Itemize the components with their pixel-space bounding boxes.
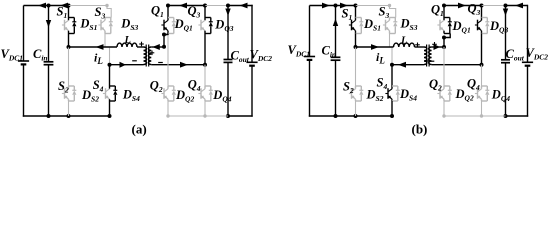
node Q4 bottom gray (b) <box>480 114 483 117</box>
wire top rail S1-S3 gray (a) <box>69 5 108 7</box>
svg-text:(b): (b) <box>412 122 428 137</box>
wire secondary bottom (a) <box>151 64 205 66</box>
wire S3 top jog gray (b) <box>390 6 396 18</box>
current arrow down into Cin (a) <box>46 20 51 28</box>
wire iL (b) <box>356 46 394 48</box>
wire bottom rail primary (b) <box>309 115 392 117</box>
node Cin bottom (a) <box>47 114 51 118</box>
transistor S2 (b) <box>349 86 356 101</box>
current arrow on top rail toward S1 (b) 1 <box>322 3 330 9</box>
label DQ2 (a) <box>175 88 194 104</box>
wire Q4 top lead gray (a) <box>204 65 206 86</box>
node secondary top corner (a) <box>162 45 166 49</box>
label DS4 (b) <box>399 87 417 103</box>
wire left rail VDC1 upper (a) <box>23 6 25 62</box>
wire bottom rail secondary gray (b) <box>444 115 506 117</box>
label Q4 (a) <box>188 78 201 94</box>
label DQ4 (a) <box>212 88 231 104</box>
label Cin (a) <box>33 47 48 63</box>
current arrow secondary bottom (a) <box>180 62 188 68</box>
label VDC2 (a) <box>250 48 273 64</box>
label DS2 (a) <box>81 88 99 104</box>
wire S2 bottom lead gray (a) <box>68 101 70 116</box>
current arrow on top rail toward VDC1 (a) <box>38 3 46 9</box>
label Cout (b) <box>506 47 525 63</box>
label DQ4 (b) <box>491 88 510 104</box>
node S1-S2 midpoint (a) <box>67 45 71 49</box>
node Q3 top (a) <box>203 4 207 8</box>
wire Q3 bottom lead (b) <box>481 34 483 65</box>
polarity plus secondary (b) <box>432 42 437 47</box>
current arrow up from Cin (b) <box>333 19 338 27</box>
current arrow top rail Q1-Q3 (a) <box>179 3 187 9</box>
wire S3 bottom lead gray (b) <box>389 34 391 48</box>
wire riser to Q1 (a) <box>164 34 168 36</box>
wire top rail Cout-VDC2 (a) <box>228 5 253 7</box>
node S2 bottom (a) <box>67 114 71 118</box>
wire Cin rail lower (a) <box>48 65 50 116</box>
label DQ1 (a) <box>174 17 193 33</box>
diode DQ2 (b) <box>444 86 452 101</box>
label iL (a) <box>94 51 103 67</box>
wire VDC2 rail upper (a) <box>251 5 253 63</box>
wire top rail Q3-Cout gray (a) <box>205 5 228 7</box>
node Cout top (b) <box>504 4 508 8</box>
label S1 (b) <box>342 7 353 23</box>
node secondary riser top (a) <box>162 33 166 37</box>
label S2 (a) <box>58 79 69 95</box>
node S4 link (a) <box>108 63 112 67</box>
wire secondary riser (a) <box>163 35 165 47</box>
wire secondary riser (b) <box>443 38 445 48</box>
wire Cin rail upper (a) <box>48 6 50 62</box>
wire left rail VDC1 lower (b) <box>309 60 311 117</box>
node secondary top corner (b) <box>442 45 446 49</box>
node Cin top (b) <box>334 4 338 8</box>
polarity minus secondary (a) <box>158 62 163 64</box>
wire S1 bottom lead (a) <box>68 34 70 48</box>
wire bottom rail output (b) <box>506 115 529 117</box>
wire left rail VDC1 upper (b) <box>309 6 311 57</box>
capacitor Cout (a) <box>224 60 233 63</box>
wire S2 top lead gray (b) <box>355 47 357 86</box>
inductor L (b) <box>394 43 415 47</box>
current arrow out of primary (b) <box>398 62 406 68</box>
current arrow into Cout (b) <box>503 9 508 17</box>
node S4 bottom (b) <box>390 114 394 118</box>
diode DQ1 (a) <box>168 18 176 34</box>
wire bottom rail output (a) <box>228 115 253 117</box>
current arrow iL pointing left (a) <box>96 44 104 50</box>
transistor S1 (b) <box>349 18 356 34</box>
wire S1 top lead (b) <box>355 6 357 18</box>
current arrow toward secondary plus (a) <box>152 44 160 50</box>
diode DQ4 (b) <box>482 86 490 101</box>
node Q1 top (b) <box>442 4 446 8</box>
wire S3 bottom lead gray (a) <box>104 34 106 48</box>
label DS1 (a) <box>79 17 97 33</box>
wire primary bottom (a) <box>110 64 144 66</box>
transistor S4 (a) <box>103 86 110 101</box>
node S1 top (a) <box>67 4 71 8</box>
wire Cout rail upper (b) <box>505 6 507 60</box>
diode DS1 (a) <box>69 18 77 34</box>
current arrow iL pointing right (b) <box>371 44 379 50</box>
label VDC2 (b) <box>526 46 549 62</box>
transformer core (a) <box>146 45 149 67</box>
label L (a) <box>124 35 131 46</box>
label Q4 (b) <box>467 77 480 93</box>
wire VDC2 rail upper (b) <box>527 5 529 63</box>
polarity minus primary (b) <box>424 60 429 62</box>
wire S1 top lead (a) <box>68 6 70 18</box>
wire Q3 top lead (b) <box>481 6 483 18</box>
diode DS4 (b) <box>392 86 400 101</box>
wire bottom rail secondary gray (a) <box>168 115 228 117</box>
wire Cout rail lower (b) <box>505 63 507 116</box>
transformer core (b) <box>427 45 430 67</box>
node Cin bottom (b) <box>334 114 338 118</box>
wire secondary top (b) <box>432 46 444 48</box>
current arrow top rail Q1-Q3 (b) <box>458 3 466 9</box>
label DS2 (b) <box>366 88 384 104</box>
current arrow on top rail from S1 node (a) <box>60 3 68 9</box>
wire Q4 bottom lead gray (a) <box>204 101 206 116</box>
label DQ2 (b) <box>455 87 474 103</box>
wire Cout rail upper (a) <box>227 6 229 60</box>
wire L to transformer (a) <box>137 46 144 48</box>
transformer primary winding (a) <box>144 47 147 65</box>
wire top rail S1-S3 gray (b) <box>356 5 390 7</box>
transistor Q1 (a) <box>161 18 168 34</box>
label L (b) <box>400 36 407 47</box>
diode DS2 (b) <box>356 86 364 101</box>
label S1 (a) <box>57 5 68 21</box>
node S4 bottom (a) <box>108 114 112 118</box>
polarity minus primary (a) <box>132 60 137 62</box>
current arrow into primary (a) <box>120 62 127 68</box>
wire primary bottom (b) <box>392 64 424 66</box>
wire top rail left segment (a) <box>24 5 69 7</box>
svg-text:L: L <box>400 36 407 47</box>
diode DS3 (b) <box>390 18 398 34</box>
transistor S4 (b) <box>385 86 392 101</box>
transistor Q2 (a) <box>161 86 168 101</box>
diode DQ4 (a) <box>205 86 213 101</box>
node S4 link (b) <box>390 63 394 67</box>
label Q2 (b) <box>429 77 442 93</box>
label S3 (a) <box>95 5 106 21</box>
label Q3 (b) <box>468 2 481 18</box>
battery VDC1 (b) <box>304 57 315 60</box>
label Cin (b) <box>322 44 337 60</box>
polarity plus primary (a) <box>139 42 144 47</box>
transistor Q4 (a) <box>198 86 205 101</box>
wire VDC2 rail lower (a) <box>251 66 253 117</box>
node Q2 bottom gray (b) <box>442 114 445 117</box>
transformer secondary winding (b) <box>429 47 432 65</box>
label Q2 (a) <box>150 79 163 95</box>
label S4 (b) <box>377 76 388 92</box>
transistor Q3 (a) <box>198 18 205 34</box>
transistor S2 (a) <box>62 86 69 101</box>
wire top rail Cout-VDC2 (b) <box>506 5 528 7</box>
wire Q4 bottom lead gray (b) <box>481 101 483 116</box>
wire S4 bottom lead (a) <box>109 101 111 116</box>
wire Q1-Q2 leg gray (b) <box>443 47 445 86</box>
node Q2 bottom gray (a) <box>166 114 169 117</box>
wire riser jog to DQ1 (b) <box>444 34 450 38</box>
label S2 (b) <box>343 80 354 96</box>
node Q1 top (a) <box>166 4 170 8</box>
diode DS1 (b) <box>356 18 364 34</box>
wire S4 bottom lead (b) <box>391 101 393 116</box>
wire S3 top jog gray (a) <box>107 6 111 18</box>
label Q1 (a) <box>151 4 164 20</box>
transistor Q4 (b) <box>475 86 482 101</box>
svg-text:L: L <box>124 35 131 46</box>
diode DS3 (a) <box>105 18 113 34</box>
node S1 top (b) <box>354 4 358 8</box>
battery VDC2 (a) <box>246 62 257 65</box>
label DS3 (b) <box>400 17 418 33</box>
wire top rail Q1-Q3 (b) <box>444 5 482 7</box>
wire S2 top lead gray (a) <box>68 47 70 86</box>
wire S2 bottom lead gray (b) <box>355 101 357 116</box>
node S2 bottom (b) <box>354 114 358 118</box>
label Q1 (b) <box>431 3 444 19</box>
node Cout bottom (a) <box>226 114 230 118</box>
label VDC1 (a) <box>1 47 24 63</box>
wire Q1 top lead (a) <box>167 6 169 18</box>
diode DQ3 (a) <box>205 18 213 34</box>
node secondary riser top (b) <box>442 36 446 40</box>
transistor Q3 (b) <box>475 18 482 34</box>
node Cout bottom (b) <box>504 114 508 118</box>
wire Cout rail lower (a) <box>227 62 229 116</box>
wire secondary bottom (b) <box>432 64 482 66</box>
node S1-S2 midpoint (b) <box>354 45 358 49</box>
label DS4 (a) <box>122 88 140 104</box>
wire link S3-S4 gray (a) <box>109 48 111 65</box>
capacitor Cin (a) <box>44 62 54 65</box>
node Q4 bottom gray (a) <box>203 114 206 117</box>
label S3 (b) <box>379 5 390 21</box>
label DQ1 (b) <box>452 19 471 35</box>
polarity plus secondary (a) <box>150 51 155 56</box>
label DS1 (b) <box>363 17 381 33</box>
label DQ3 (b) <box>489 19 508 35</box>
label Q3 (a) <box>188 4 201 20</box>
transformer primary winding (b) <box>424 47 427 65</box>
label DS3 (a) <box>120 17 138 33</box>
label DQ3 (a) <box>214 18 233 34</box>
wire left rail VDC1 lower (a) <box>23 64 25 116</box>
caption (b) <box>412 122 428 137</box>
diode DS2 (a) <box>69 86 77 101</box>
polarity minus secondary (b) <box>430 60 435 62</box>
node S3 top gray (b) <box>388 4 391 7</box>
wire iL (a) <box>69 46 118 48</box>
wire Q3 top lead (a) <box>204 6 206 18</box>
diode DQ1 (b) <box>444 18 452 34</box>
svg-text:(a): (a) <box>132 122 147 137</box>
label VDC1 (b) <box>288 43 311 59</box>
current arrow from VDC2 (b) <box>515 3 523 9</box>
capacitor Cin (b) <box>331 57 341 60</box>
wire S4 top lead (b) <box>391 65 393 86</box>
wire link S3-S4 gray (b) <box>391 48 393 65</box>
wire bottom rail primary (a) <box>23 115 110 117</box>
wire Q3 bottom lead (a) <box>204 34 206 65</box>
inductor L (a) <box>117 43 137 47</box>
wire top rail Q3-Cout gray (b) <box>482 5 506 7</box>
node S3 top gray (a) <box>105 4 108 7</box>
capacitor Cout (b) <box>501 60 510 63</box>
wire S1 bottom lead (b) <box>355 34 357 48</box>
node Q3 top (b) <box>480 4 484 8</box>
transistor S3 (a) <box>98 18 105 34</box>
wire Q1-Q2 leg gray (a) <box>167 35 169 86</box>
node Cout top (a) <box>226 4 230 8</box>
node Q3 bottom (a) <box>203 63 207 67</box>
wire L to transformer (b) <box>415 46 425 48</box>
diode DQ2 (a) <box>168 86 176 101</box>
battery VDC1 (a) <box>18 61 29 64</box>
wire Cin rail upper (b) <box>335 6 337 58</box>
wire top rail left segment (b) <box>310 5 356 7</box>
polarity plus primary (b) <box>415 43 420 48</box>
transistor Q1 (b) <box>437 18 444 34</box>
wire Q1 top lead (b) <box>443 6 445 18</box>
diode DQ3 (b) <box>482 18 490 34</box>
battery VDC2 (b) <box>522 62 533 65</box>
wire Cin rail lower (b) <box>335 60 337 116</box>
transformer secondary winding (a) <box>148 47 151 65</box>
node Q3 bottom (b) <box>480 63 484 67</box>
wire S4 top lead (a) <box>109 65 111 86</box>
current arrow from VDC2 (a) <box>240 3 248 9</box>
caption (a) <box>132 122 147 137</box>
label S4 (a) <box>93 78 104 94</box>
wire Q2 bottom lead gray (b) <box>443 101 445 116</box>
transistor S3 (b) <box>383 18 390 34</box>
node Cin top (a) <box>47 4 51 8</box>
wire top rail Q1-Q3 (a) <box>168 5 205 7</box>
current arrow out of secondary plus (b) <box>434 44 441 50</box>
wire Q1 bottom jog (a) <box>164 34 168 35</box>
diode DS4 (a) <box>110 86 118 101</box>
transistor S1 (a) <box>62 18 69 34</box>
label iL (b) <box>376 50 385 66</box>
wire secondary top (a) <box>151 46 164 48</box>
current arrow into Cout (a) <box>225 9 230 17</box>
label Cout (a) <box>231 49 250 65</box>
wire Q2 bottom lead gray (a) <box>167 101 169 116</box>
transistor Q2 (b) <box>437 86 444 101</box>
wire VDC2 rail lower (b) <box>527 66 529 117</box>
current arrow on top rail toward S1 (b) 2 <box>340 3 348 9</box>
wire Q4 top lead gray (b) <box>481 65 483 86</box>
